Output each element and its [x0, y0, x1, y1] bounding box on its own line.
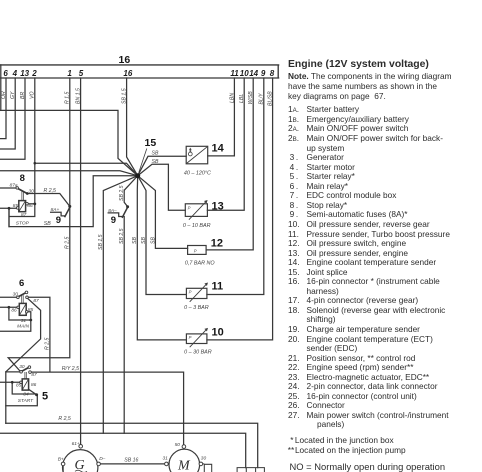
svg-text:M: M: [177, 459, 191, 472]
svg-text:P: P: [194, 249, 197, 254]
svg-text:BL/Y: BL/Y: [258, 93, 264, 105]
sender P marks: [188, 205, 197, 340]
stop relay U8 junction dot 85: [8, 207, 11, 210]
boost pressure sender 11: [186, 288, 207, 298]
main relay U6 terminal circle 87: [26, 296, 29, 299]
component number labels: [19, 137, 225, 402]
svg-text:G: G: [75, 458, 85, 472]
stop relay U8 terminal circle 86: [26, 202, 29, 205]
svg-text:SB 1,5: SB 1,5: [122, 88, 128, 104]
svg-text:86: 86: [27, 203, 33, 209]
svg-text:61+: 61+: [72, 441, 80, 447]
wire bottom SB bus to control unit: [0, 433, 246, 467]
fuse 9b terminal dot: [126, 205, 129, 208]
wire BN 1,5 pin5 to generator 61+: [80, 78, 82, 445]
svg-text:D–: D–: [99, 456, 105, 462]
main relay U6 86 wire: [0, 306, 17, 308]
reverse gear oil pressure sender 10: [186, 334, 207, 344]
starter motor M4: [165, 445, 203, 472]
wire splice to fuse 9b: [124, 176, 138, 207]
svg-text:5: 5: [42, 390, 48, 402]
svg-text:SB: SB: [150, 237, 156, 244]
svg-text:10: 10: [240, 69, 249, 78]
starter relay U5 coil out diagonal: [29, 389, 37, 395]
svg-text:1: 1: [67, 69, 72, 78]
svg-text:9: 9: [111, 215, 116, 226]
svg-text:31: 31: [21, 318, 27, 324]
svg-text:31: 31: [163, 456, 169, 462]
svg-text:R 2,5: R 2,5: [44, 188, 57, 194]
svg-text:11: 11: [212, 281, 224, 293]
wire VO branch to splice: [35, 163, 138, 176]
fuse 9b blade: [122, 207, 127, 217]
wire splice to stop relay 85: [0, 176, 138, 227]
svg-text:30: 30: [201, 456, 207, 462]
svg-text:BR: BR: [20, 92, 26, 99]
svg-text:VO: VO: [30, 92, 36, 100]
svg-text:9: 9: [56, 215, 61, 226]
relay terminal labels: [10, 183, 207, 463]
wire harness exit to splice: [0, 110, 138, 175]
svg-text:SB 16: SB 16: [124, 458, 138, 464]
main relay U6 terminal circle 30: [17, 296, 20, 299]
main relay U6 junction dot left: [7, 306, 10, 309]
svg-text:LBL: LBL: [239, 94, 245, 103]
starter relay U5 coil: [22, 379, 28, 390]
starter relay U5 coil return: [12, 382, 35, 394]
svg-text:0,7 BAR NO: 0,7 BAR NO: [185, 260, 215, 266]
svg-text:85: 85: [16, 383, 22, 389]
stop relay U8 terminal circle 85: [16, 207, 19, 210]
wire R/Y 2,5 starter relay 87 to starter motor 50: [31, 372, 183, 445]
starter relay U5 terminal circle 85: [20, 381, 22, 383]
svg-text:11: 11: [230, 69, 239, 78]
svg-text:87a: 87a: [10, 183, 18, 189]
svg-text:14: 14: [249, 69, 258, 78]
svg-text:SB: SB: [152, 151, 159, 157]
svg-text:R 2,5: R 2,5: [65, 236, 71, 249]
svg-text:SB: SB: [132, 237, 138, 244]
wire SB 2,5 fuse 9b down: [123, 217, 125, 434]
stop relay U8 link: [22, 191, 24, 201]
main relay U6 terminal circle 86: [17, 306, 19, 308]
stop relay U8 junction dot 86: [33, 203, 36, 206]
svg-text:R 2,5: R 2,5: [45, 337, 51, 350]
wire SB 1,5 splice down: [103, 176, 137, 434]
main relay U6 feed 30: [0, 296, 17, 298]
wire SB 1,5 pin16 to splice: [127, 78, 138, 176]
wire W/SB pin14 to switch 12: [206, 78, 253, 250]
wire BL/SB pin8 to sender 10: [207, 78, 273, 340]
svg-text:14: 14: [212, 143, 225, 155]
starter relay U5 85 wire: [0, 381, 20, 383]
connector 16 pin numbers: [3, 69, 274, 78]
16-pin connector 16 (bus bar): [0, 65, 279, 78]
node VO junction: [34, 162, 37, 165]
main relay U6 coil return: [0, 307, 31, 331]
wire main relay 87 diagonal to starter relay: [6, 298, 41, 372]
svg-text:0 – 30 BAR: 0 – 30 BAR: [184, 350, 212, 356]
starter relay U5 armature blade: [22, 368, 29, 372]
svg-text:LBN: LBN: [229, 93, 235, 103]
main relay U6 link: [22, 295, 24, 304]
stop relay U8 armature blade: [18, 189, 27, 194]
svg-text:16: 16: [123, 69, 132, 78]
svg-text:R 2,5: R 2,5: [58, 416, 71, 422]
main relay U6 terminal circle 85: [26, 311, 28, 313]
wire generator B+ stub: [62, 466, 64, 472]
stop relay U8 coil return loop: [9, 204, 35, 227]
starter relay U5 junction dot right: [35, 393, 38, 396]
svg-text:86: 86: [31, 382, 37, 388]
control unit connector box: [237, 468, 264, 472]
svg-text:6: 6: [3, 69, 8, 78]
svg-text:START: START: [18, 398, 34, 404]
svg-text:P: P: [189, 335, 192, 340]
wire splice to switch 12: [138, 176, 188, 249]
svg-text:30: 30: [13, 291, 19, 297]
svg-text:8: 8: [270, 69, 275, 78]
svg-text:SB: SB: [152, 159, 159, 165]
main relay U6 junction dot bottom: [29, 319, 32, 322]
wire splice to sender 11: [138, 176, 187, 295]
wire main relay 87 R 2,5 down: [27, 297, 50, 372]
oil pressure sender 13: [185, 204, 207, 217]
svg-text:16: 16: [119, 54, 131, 66]
svg-text:10: 10: [212, 326, 224, 338]
fuse 9a symbol: [51, 212, 65, 216]
starter relay U5 terminal circle top: [28, 366, 31, 369]
wire splice to sender 14: [138, 156, 187, 175]
svg-text:0 – 10 BAR: 0 – 10 BAR: [183, 223, 211, 229]
svg-text:GY: GY: [10, 91, 16, 99]
svg-text:86: 86: [11, 308, 17, 314]
svg-text:OR: OR: [1, 91, 7, 99]
svg-text:2: 2: [31, 69, 37, 78]
wire VO pin2: [34, 78, 36, 203]
stop relay U8 86 link: [28, 203, 33, 205]
svg-text:MAIN: MAIN: [17, 323, 30, 329]
svg-text:13: 13: [212, 200, 224, 212]
stop relay U8 coil diagonal: [19, 201, 26, 212]
svg-text:40 – 120°C: 40 – 120°C: [184, 170, 211, 176]
svg-text:87: 87: [21, 212, 27, 218]
starter relay U5 terminal circle 87: [29, 371, 32, 374]
svg-text:P: P: [189, 290, 192, 295]
svg-text:SB: SB: [141, 237, 147, 244]
svg-text:87: 87: [33, 298, 39, 304]
starter relay U5 enclosure: [6, 396, 38, 406]
fuse 9a blade: [65, 207, 70, 217]
main relay U6 coil diagonal: [19, 303, 26, 315]
sender value labels: [183, 170, 215, 355]
svg-text:6: 6: [19, 278, 24, 289]
coolant temperature sender 14: [186, 146, 208, 164]
svg-text:85: 85: [13, 203, 19, 209]
main relay U6 coil: [19, 303, 26, 315]
wire BL/Y pin9 to sender 11: [207, 78, 264, 295]
wire bar left stub: [0, 65, 2, 111]
svg-text:0 – 3 BAR: 0 – 3 BAR: [184, 305, 209, 311]
svg-text:8A+: 8A+: [51, 207, 60, 213]
legend column: [288, 59, 429, 70]
stop relay U8 coil: [19, 201, 26, 212]
stop relay U8 terminal circle 87a: [16, 187, 19, 190]
wire BR pin13: [0, 78, 25, 159]
main relay U6 armature blade: [19, 293, 26, 297]
svg-text:B+: B+: [58, 456, 64, 462]
starter relay U5 junction dot left: [11, 381, 14, 384]
wire SB 16 generator D- to starter motor 31: [100, 463, 164, 465]
svg-text:R/Y 2,5: R/Y 2,5: [62, 366, 79, 372]
svg-text:4: 4: [12, 69, 18, 78]
wire R 2,5 stop relay 30 to fuse 9a: [27, 194, 70, 207]
rotated wire labels: [1, 88, 274, 350]
svg-text:BL/SB: BL/SB: [267, 91, 273, 106]
svg-text:87: 87: [31, 372, 37, 378]
svg-text:SB 2,5: SB 2,5: [119, 228, 125, 244]
starter motor solenoid bracket: [203, 464, 212, 472]
svg-text:30: 30: [19, 364, 25, 370]
svg-text:84: 84: [23, 391, 29, 397]
svg-text:SB 1,5: SB 1,5: [98, 234, 104, 250]
generator G3: [61, 445, 100, 472]
svg-text:15: 15: [145, 137, 157, 149]
wire LBN pin11 to sender 14: [208, 78, 235, 156]
svg-text:BN 1,5: BN 1,5: [76, 88, 82, 104]
joint splice 15: [135, 173, 140, 178]
svg-text:SB: SB: [44, 221, 51, 227]
wire R 2,5 battery line to control unit: [6, 423, 258, 467]
wire splice to sender 13: [138, 164, 186, 210]
wire GY pin4: [0, 78, 15, 149]
wire starter relay 30 feed: [6, 372, 20, 423]
svg-text:8: 8: [20, 173, 25, 184]
wire R 1,5 pin1 to fuse 9a and starter relay: [8, 78, 70, 371]
wire harness exit 2 to splice: [0, 171, 138, 176]
stop relay U8 terminal dot 30: [26, 192, 29, 195]
svg-text:13: 13: [20, 69, 29, 78]
wire OR pin6: [0, 78, 6, 139]
svg-text:STOP: STOP: [16, 220, 30, 226]
wire LBL pin10 to sender 13: [207, 78, 244, 210]
fuse 9a terminal dot: [68, 205, 71, 208]
starter relay U5 terminal circle 30: [20, 371, 23, 374]
svg-text:85: 85: [28, 307, 34, 313]
svg-text:P: P: [188, 205, 191, 210]
joint splice 15 leader line: [139, 149, 147, 173]
svg-text:50: 50: [175, 442, 181, 448]
svg-text:9: 9: [261, 69, 266, 78]
main relay U6 terminal circle top: [25, 291, 28, 294]
svg-text:12: 12: [211, 237, 223, 249]
wire splice to sender 10: [137, 176, 186, 340]
starter relay U5 coil diagonal: [22, 379, 28, 390]
starter relay U5 link: [25, 372, 26, 379]
generator G3 wave: [75, 470, 87, 472]
horizontal wire labels: [44, 151, 159, 464]
svg-text:30: 30: [29, 189, 35, 195]
svg-text:SB 2,5: SB 2,5: [119, 185, 125, 201]
svg-text:R 1,5: R 1,5: [65, 91, 71, 104]
svg-text:W/SB: W/SB: [248, 91, 254, 105]
svg-text:5: 5: [79, 69, 84, 78]
oil pressure switch 12: [188, 246, 207, 255]
stop relay U8 armature wire 87a: [0, 187, 16, 189]
svg-text:8A–: 8A–: [108, 208, 117, 214]
fuse 9b symbol: [108, 213, 122, 217]
